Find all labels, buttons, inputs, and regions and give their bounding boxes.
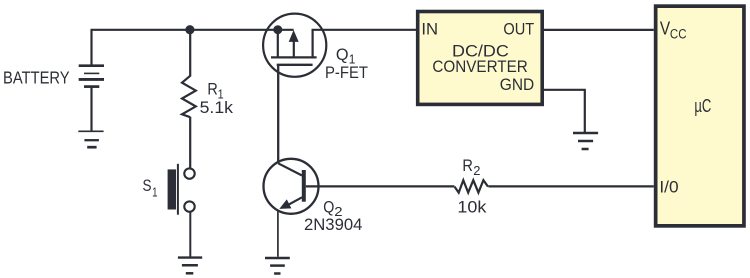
junction node (battery / R1 / Q1 source rail) bbox=[185, 25, 194, 34]
label R2 bbox=[462, 156, 480, 178]
svg-text:R: R bbox=[462, 156, 473, 175]
wire: junction down to R1 bbox=[189, 30, 191, 77]
label R1 bbox=[207, 80, 223, 102]
resistor R1 bbox=[182, 76, 196, 117]
block U2: DC/DC converter bbox=[418, 12, 543, 105]
body arrow bbox=[293, 42, 295, 58]
ground (battery) bbox=[78, 131, 103, 147]
base bar bbox=[302, 170, 306, 202]
label Q1 bbox=[336, 45, 355, 67]
emitter diagonal with arrow bbox=[286, 197, 303, 206]
svg-text:1: 1 bbox=[152, 185, 157, 199]
pin VCC bbox=[660, 19, 687, 42]
wire: Q2 base to R2 bbox=[306, 185, 455, 187]
svg-text:10k: 10k bbox=[457, 198, 487, 217]
wire: R2 to uC I/O pin bbox=[488, 185, 653, 187]
svg-text:OUT: OUT bbox=[503, 20, 534, 39]
svg-text:S: S bbox=[143, 176, 152, 195]
svg-text:GND: GND bbox=[500, 75, 534, 94]
svg-text:I/0: I/0 bbox=[659, 177, 678, 196]
wire: Q1 gate to Q2 collector bbox=[277, 65, 279, 164]
svg-text:BATTERY: BATTERY bbox=[3, 68, 70, 88]
svg-text:2: 2 bbox=[473, 164, 480, 178]
svg-text:5.1k: 5.1k bbox=[200, 98, 234, 117]
drain lead bbox=[312, 30, 314, 58]
wire: switch to ground bbox=[189, 212, 191, 256]
svg-text:CC: CC bbox=[670, 27, 687, 42]
ground (DC/DC) bbox=[573, 133, 598, 149]
wire: top rail from battery to Q1 source (arrow tip) bbox=[91, 29, 294, 31]
gate bar bbox=[277, 64, 313, 66]
svg-text:Q: Q bbox=[323, 197, 334, 216]
source lead bbox=[277, 30, 279, 58]
label Q2 bbox=[323, 197, 342, 218]
resistor R2 bbox=[455, 180, 489, 192]
node: source/body dot bbox=[273, 25, 282, 34]
channel bar bbox=[271, 56, 317, 58]
switch S1 (pushbutton) bbox=[168, 164, 195, 215]
wire: DC/DC GND to ground bbox=[544, 90, 585, 133]
ground (switch) bbox=[178, 258, 202, 274]
wire: R1 to switch S1 bbox=[189, 117, 191, 168]
svg-text:CONVERTER: CONVERTER bbox=[432, 57, 527, 76]
svg-text:µC: µC bbox=[694, 96, 711, 116]
ground (Q2 emitter) bbox=[265, 258, 290, 274]
collector diagonal bbox=[278, 163, 302, 175]
svg-text:P-FET: P-FET bbox=[325, 63, 368, 82]
wire: Q1 drain to DC/DC IN bbox=[312, 29, 417, 31]
transistor Q2 (2N3904) bbox=[264, 159, 319, 214]
battery B1 bbox=[79, 30, 104, 131]
svg-text:R: R bbox=[207, 80, 217, 99]
label S1 bbox=[143, 176, 158, 199]
svg-text:V: V bbox=[660, 19, 670, 39]
svg-text:2N3904: 2N3904 bbox=[304, 215, 362, 234]
block U3: microcontroller uC bbox=[656, 6, 744, 226]
svg-text:Q: Q bbox=[336, 45, 349, 64]
wire: DC/DC OUT to uC VCC bbox=[544, 29, 654, 31]
svg-text:IN: IN bbox=[421, 20, 438, 39]
transistor Q1 (P-FET) bbox=[263, 14, 326, 77]
wire: Q2 emitter to ground bbox=[277, 211, 279, 257]
